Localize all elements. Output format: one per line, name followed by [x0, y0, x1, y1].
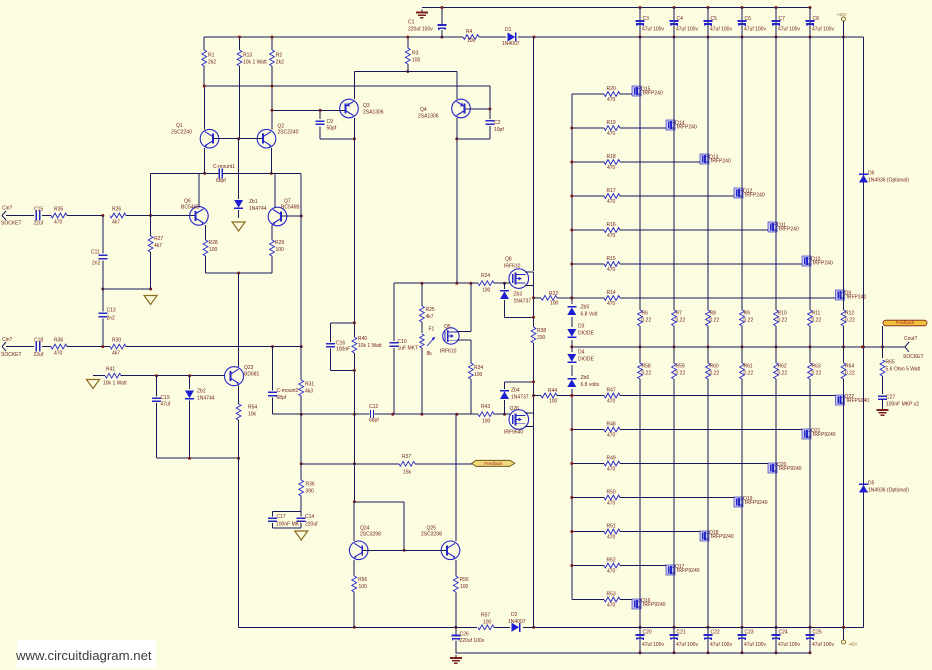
svg-text:R36: R36	[54, 338, 63, 344]
svg-text:-42V: -42V	[848, 642, 858, 647]
svg-text:R11: R11	[812, 311, 821, 317]
svg-text:R29: R29	[275, 240, 284, 246]
svg-text:100: 100	[550, 301, 559, 307]
svg-text:+42V: +42V	[836, 12, 847, 17]
svg-text:R44: R44	[548, 388, 557, 394]
svg-text:R6: R6	[642, 311, 649, 317]
svg-text:IRFP9240: IRFP9240	[643, 602, 666, 608]
svg-text:0.22: 0.22	[744, 371, 754, 377]
svg-text:C-mount1: C-mount1	[213, 164, 235, 170]
svg-text:R38: R38	[537, 328, 546, 334]
svg-text:R26: R26	[112, 207, 121, 213]
svg-text:220uf 100v: 220uf 100v	[408, 27, 433, 33]
svg-text:BC546B: BC546B	[281, 205, 300, 211]
svg-text:50pf: 50pf	[327, 126, 337, 132]
svg-text:22uf: 22uf	[34, 221, 44, 227]
svg-text:8k: 8k	[427, 351, 433, 357]
svg-text:Q23: Q23	[244, 365, 254, 371]
svg-text:68pf: 68pf	[216, 178, 226, 184]
svg-text:470: 470	[607, 433, 616, 439]
svg-text:100nF: 100nF	[336, 347, 350, 353]
svg-text:D3: D3	[578, 324, 585, 330]
svg-text:IRFP9240: IRFP9240	[745, 500, 768, 506]
svg-text:R25: R25	[426, 307, 435, 313]
svg-text:15k: 15k	[403, 470, 412, 476]
svg-text:C23: C23	[745, 630, 754, 636]
svg-text:330: 330	[537, 335, 546, 341]
svg-text:10pf: 10pf	[494, 127, 504, 133]
svg-text:R59: R59	[676, 364, 685, 370]
svg-text:Q5: Q5	[444, 324, 451, 330]
svg-text:2n2: 2n2	[107, 316, 116, 322]
svg-text:C21: C21	[677, 630, 686, 636]
svg-text:R31: R31	[305, 382, 314, 388]
svg-text:470: 470	[607, 501, 616, 507]
svg-text:Feedback: Feedback	[484, 461, 503, 466]
svg-text:R2: R2	[276, 53, 283, 59]
svg-text:470: 470	[607, 233, 616, 239]
svg-text:R47: R47	[607, 388, 616, 394]
svg-text:0.22: 0.22	[642, 318, 652, 324]
svg-text:Q8: Q8	[505, 257, 512, 263]
svg-text:Q3: Q3	[363, 103, 370, 109]
svg-text:R28: R28	[209, 240, 218, 246]
svg-text:D6: D6	[868, 171, 875, 177]
svg-text:R35: R35	[54, 207, 63, 213]
svg-text:R1: R1	[208, 53, 215, 59]
svg-text:47uf 100v: 47uf 100v	[778, 27, 800, 33]
svg-text:C26: C26	[460, 632, 469, 638]
svg-text:0.22: 0.22	[812, 318, 822, 324]
svg-text:R17: R17	[607, 188, 616, 194]
svg-text:68pf: 68pf	[369, 418, 379, 424]
svg-text:C-mount2: C-mount2	[277, 388, 299, 394]
svg-text:D1: D1	[505, 27, 512, 33]
svg-text:100: 100	[549, 399, 558, 405]
svg-text:C14: C14	[305, 514, 314, 520]
svg-text:Cin?: Cin?	[2, 337, 13, 343]
svg-text:100nF MKT: 100nF MKT	[276, 522, 302, 528]
svg-text:4k7: 4k7	[426, 314, 434, 320]
svg-text:Cout?: Cout?	[904, 336, 918, 342]
svg-text:2k2: 2k2	[276, 60, 284, 66]
svg-text:IRFP240: IRFP240	[847, 295, 867, 301]
svg-text:470: 470	[607, 199, 616, 205]
svg-text:470: 470	[607, 267, 616, 273]
svg-text:R64: R64	[845, 364, 854, 370]
svg-text:C20: C20	[643, 630, 652, 636]
svg-text:4k7: 4k7	[112, 220, 120, 226]
svg-text:47uf 100v: 47uf 100v	[642, 642, 664, 648]
svg-text:R62: R62	[778, 364, 787, 370]
svg-text:IRFP240: IRFP240	[677, 125, 697, 131]
svg-text:6.8 Volt: 6.8 Volt	[581, 312, 598, 318]
svg-text:R41: R41	[106, 367, 115, 373]
svg-text:47uf 100v: 47uf 100v	[744, 642, 766, 648]
svg-text:100: 100	[482, 419, 491, 425]
svg-text:10k 1 Watt: 10k 1 Watt	[358, 343, 382, 349]
svg-text:390: 390	[306, 489, 315, 495]
svg-text:C10: C10	[398, 339, 407, 345]
svg-text:0.22: 0.22	[812, 371, 822, 377]
svg-text:470: 470	[607, 569, 616, 575]
svg-text:C8: C8	[813, 16, 820, 22]
svg-text:IRFP9240: IRFP9240	[813, 432, 836, 438]
svg-text:470: 470	[607, 603, 616, 609]
svg-text:SOCKET: SOCKET	[903, 354, 924, 360]
svg-text:IRF610: IRF610	[504, 264, 521, 270]
svg-text:47uf 100v: 47uf 100v	[710, 642, 732, 648]
svg-text:1N4007: 1N4007	[502, 41, 520, 47]
svg-text:R40: R40	[358, 336, 367, 342]
svg-text:47uf 100v: 47uf 100v	[676, 27, 698, 33]
svg-text:C3: C3	[643, 16, 650, 22]
svg-text:100: 100	[474, 372, 483, 378]
svg-text:0.22: 0.22	[744, 318, 754, 324]
svg-text:R52: R52	[607, 558, 616, 564]
svg-text:R12: R12	[845, 311, 854, 317]
svg-text:47uf 100v: 47uf 100v	[642, 27, 664, 33]
svg-text:100: 100	[482, 288, 491, 294]
svg-text:2SA1306: 2SA1306	[418, 114, 439, 120]
svg-text:DIODE: DIODE	[578, 331, 595, 337]
svg-text:BC546B: BC546B	[181, 205, 200, 211]
svg-text:2SC2240: 2SC2240	[171, 130, 192, 136]
svg-text:0.22: 0.22	[778, 318, 788, 324]
svg-text:R19: R19	[607, 120, 616, 126]
svg-text:R50: R50	[607, 490, 616, 496]
svg-text:0.22: 0.22	[710, 371, 720, 377]
svg-text:2SC3298: 2SC3298	[421, 532, 442, 538]
svg-text:47uf 100v: 47uf 100v	[812, 27, 834, 33]
svg-text:Cin?: Cin?	[2, 206, 13, 212]
svg-text:R53: R53	[607, 592, 616, 598]
svg-text:6.8 volts: 6.8 volts	[581, 382, 600, 388]
svg-text:470: 470	[607, 131, 616, 137]
svg-text:C15: C15	[34, 207, 43, 213]
svg-text:IRFP240: IRFP240	[745, 193, 765, 199]
svg-text:R48: R48	[607, 422, 616, 428]
svg-text:220uf: 220uf	[305, 522, 318, 528]
svg-text:1N4936 (Optional): 1N4936 (Optional)	[868, 488, 909, 494]
svg-text:470: 470	[607, 97, 616, 103]
svg-text:100: 100	[209, 247, 218, 253]
svg-text:5.6 Ohm 5 Watt: 5.6 Ohm 5 Watt	[886, 367, 921, 373]
svg-text:C4: C4	[677, 16, 684, 22]
svg-text:C12: C12	[369, 404, 378, 410]
svg-text:100nF MKP x2: 100nF MKP x2	[886, 402, 919, 408]
svg-text:R20: R20	[607, 86, 616, 92]
svg-text:C25: C25	[813, 630, 822, 636]
svg-text:SOCKET: SOCKET	[1, 352, 22, 358]
svg-text:R34: R34	[474, 365, 483, 371]
svg-text:4k7: 4k7	[154, 243, 162, 249]
svg-text:R9: R9	[744, 311, 751, 317]
svg-text:R61: R61	[744, 364, 753, 370]
svg-text:1N4737: 1N4737	[514, 299, 532, 305]
svg-text:1N4007: 1N4007	[508, 619, 526, 625]
svg-text:R27: R27	[154, 236, 163, 242]
svg-text:2SA1306: 2SA1306	[363, 110, 384, 116]
svg-text:BD681: BD681	[244, 372, 260, 378]
svg-text:470: 470	[607, 467, 616, 473]
svg-text:47uf: 47uf	[161, 402, 171, 408]
svg-text:Zb4: Zb4	[511, 388, 520, 394]
svg-text:1N4737: 1N4737	[511, 395, 529, 401]
svg-text:IRFP9240: IRFP9240	[779, 466, 802, 472]
svg-text:470: 470	[607, 399, 616, 405]
svg-text:C11: C11	[91, 250, 100, 256]
svg-text:R7: R7	[676, 311, 683, 317]
svg-text:100: 100	[460, 584, 469, 590]
svg-text:4k3: 4k3	[305, 389, 313, 395]
svg-text:0.22: 0.22	[845, 371, 855, 377]
svg-text:R3: R3	[412, 51, 419, 57]
svg-text:C13: C13	[107, 308, 116, 314]
svg-text:4k7: 4k7	[112, 351, 120, 357]
svg-text:Feedback: Feedback	[896, 320, 915, 325]
svg-text:R13: R13	[243, 53, 252, 59]
svg-text:0.22: 0.22	[676, 371, 686, 377]
svg-text:1N4936 (Optional): 1N4936 (Optional)	[868, 178, 909, 184]
svg-text:Zb3: Zb3	[514, 292, 523, 298]
svg-text:DIODE: DIODE	[578, 357, 595, 363]
svg-text:R55: R55	[460, 577, 469, 583]
svg-text:C7: C7	[779, 16, 786, 22]
svg-text:47uf 100v: 47uf 100v	[744, 27, 766, 33]
svg-text:2SC2240: 2SC2240	[278, 130, 299, 136]
svg-text:IRFP9240: IRFP9240	[847, 398, 870, 404]
svg-text:C18: C18	[34, 338, 43, 344]
svg-text:R65: R65	[886, 360, 895, 366]
svg-text:IRFP240: IRFP240	[779, 227, 799, 233]
svg-text:IRFP9240: IRFP9240	[711, 534, 734, 540]
svg-text:220uf 100v: 220uf 100v	[460, 638, 485, 644]
svg-text:470: 470	[607, 301, 616, 307]
svg-text:C1: C1	[408, 20, 415, 26]
svg-text:R30: R30	[112, 338, 121, 344]
svg-text:C27: C27	[886, 395, 895, 401]
svg-text:C17: C17	[277, 514, 286, 520]
svg-text:C19: C19	[161, 395, 170, 401]
svg-text:0.22: 0.22	[710, 318, 720, 324]
svg-text:R14: R14	[607, 290, 616, 296]
svg-text:10k: 10k	[248, 412, 257, 418]
svg-text:F1: F1	[429, 327, 435, 333]
svg-text:470: 470	[54, 220, 63, 226]
svg-text:2k2: 2k2	[208, 60, 216, 66]
svg-text:R37: R37	[402, 454, 411, 460]
svg-text:C24: C24	[779, 630, 788, 636]
svg-text:10k 1 Watt: 10k 1 Watt	[243, 60, 267, 66]
svg-text:1N4744: 1N4744	[249, 206, 267, 212]
svg-text:C9: C9	[327, 119, 334, 125]
svg-text:R18: R18	[607, 154, 616, 160]
svg-text:R8: R8	[710, 311, 717, 317]
svg-text:SOCKET: SOCKET	[1, 221, 22, 227]
svg-text:R56: R56	[358, 577, 367, 583]
svg-text:R36: R36	[306, 482, 315, 488]
svg-text:1N4744: 1N4744	[197, 396, 215, 402]
svg-text:Zb1: Zb1	[249, 199, 258, 205]
svg-text:R51: R51	[607, 524, 616, 530]
svg-text:1uF MKT: 1uF MKT	[398, 346, 419, 352]
svg-text:47uf 100v: 47uf 100v	[676, 642, 698, 648]
svg-text:2n2: 2n2	[92, 261, 101, 267]
svg-text:0.22: 0.22	[676, 318, 686, 324]
svg-text:C6: C6	[745, 16, 752, 22]
svg-text:0.22: 0.22	[845, 318, 855, 324]
svg-text:2SC3298: 2SC3298	[360, 532, 381, 538]
svg-text:100: 100	[359, 584, 368, 590]
svg-text:IRFP9240: IRFP9240	[677, 568, 700, 574]
svg-text:47uf 100v: 47uf 100v	[812, 642, 834, 648]
svg-text:Q1: Q1	[176, 123, 183, 129]
svg-text:R10: R10	[778, 311, 787, 317]
svg-text:470: 470	[607, 165, 616, 171]
svg-text:470: 470	[607, 535, 616, 541]
svg-text:10k 1 Watt: 10k 1 Watt	[103, 381, 127, 387]
svg-text:R63: R63	[812, 364, 821, 370]
svg-text:www.circuitdiagram.net: www.circuitdiagram.net	[15, 648, 152, 663]
svg-text:470: 470	[54, 351, 63, 357]
svg-text:0.22: 0.22	[778, 371, 788, 377]
svg-text:Q4: Q4	[420, 107, 427, 113]
svg-text:R24: R24	[481, 273, 490, 279]
svg-text:C5: C5	[711, 16, 718, 22]
svg-text:R16: R16	[607, 222, 616, 228]
svg-text:IRF610: IRF610	[440, 349, 457, 355]
svg-text:Q26: Q26	[510, 406, 520, 412]
svg-text:100: 100	[276, 247, 285, 253]
svg-text:D4: D4	[578, 350, 585, 356]
svg-text:C22: C22	[711, 630, 720, 636]
svg-text:R4: R4	[466, 29, 473, 35]
svg-text:R58: R58	[642, 364, 651, 370]
svg-text:D2: D2	[511, 612, 518, 618]
svg-text:R49: R49	[607, 456, 616, 462]
svg-text:IRFP240: IRFP240	[711, 159, 731, 165]
svg-text:100: 100	[483, 620, 492, 626]
svg-text:D5: D5	[868, 481, 875, 487]
svg-text:R22: R22	[549, 291, 558, 297]
svg-text:R60: R60	[710, 364, 719, 370]
svg-text:100: 100	[412, 58, 421, 64]
svg-text:C2: C2	[494, 120, 501, 126]
svg-text:100: 100	[467, 38, 476, 44]
svg-text:22uf: 22uf	[34, 352, 44, 358]
svg-text:Zb5: Zb5	[581, 305, 590, 311]
svg-text:R43: R43	[481, 404, 490, 410]
svg-text:IRFP240: IRFP240	[643, 91, 663, 97]
svg-text:Zb2: Zb2	[197, 389, 206, 395]
svg-text:IRF9640: IRF9640	[504, 430, 523, 436]
svg-text:47uf 100v: 47uf 100v	[778, 642, 800, 648]
svg-text:Zb6: Zb6	[581, 375, 590, 381]
svg-text:R57: R57	[481, 613, 490, 619]
svg-text:R54: R54	[248, 405, 257, 411]
svg-text:R15: R15	[607, 256, 616, 262]
svg-text:IRFP240: IRFP240	[813, 261, 833, 267]
svg-text:68pf: 68pf	[277, 395, 287, 401]
svg-text:0.22: 0.22	[642, 371, 652, 377]
svg-text:47uf 100v: 47uf 100v	[710, 27, 732, 33]
